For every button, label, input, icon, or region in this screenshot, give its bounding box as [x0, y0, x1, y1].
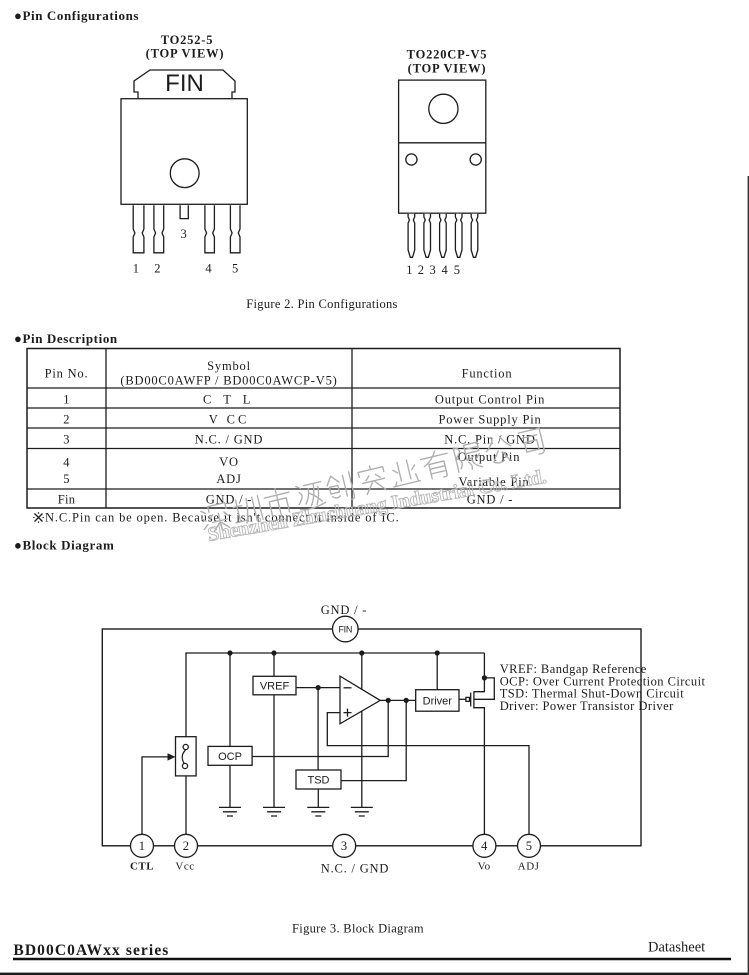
pin FIN tab circle: [333, 616, 359, 642]
svg-text:1: 1: [139, 839, 146, 853]
svg-text:FIN: FIN: [165, 70, 204, 97]
svg-text:●Pin Description: ●Pin Description: [14, 331, 118, 346]
wire TSD output to output node: [341, 700, 406, 780]
junction output node at OCP feedback: [386, 698, 391, 703]
pin 4 Vo: [473, 834, 496, 872]
svg-text:5: 5: [63, 472, 70, 486]
svg-text:V CC: V CC: [209, 413, 250, 427]
ground under op-amp line: [351, 807, 373, 816]
TO252-5 leg 1: [133, 205, 144, 253]
TO252-5 leg 5: [230, 205, 240, 253]
TO252-5 leg 4: [205, 205, 215, 253]
svg-text:Figure 3. Block Diagram: Figure 3. Block Diagram: [292, 922, 424, 936]
TO252-5 leg 2: [154, 205, 164, 253]
TO220 leg 5: [471, 214, 478, 257]
svg-text:ADJ: ADJ: [216, 472, 241, 486]
svg-text:C T L: C T L: [203, 393, 255, 407]
svg-text:(BD00C0AWFP / BD00C0AWCP-V5): (BD00C0AWFP / BD00C0AWCP-V5): [120, 374, 337, 388]
wire VREF output to op-amp inverting input: [296, 687, 340, 689]
svg-text:N.C. Pin / GND: N.C. Pin / GND: [444, 433, 535, 447]
svg-text:N.C. / GND: N.C. / GND: [195, 433, 263, 447]
svg-text:TO220CP-V5: TO220CP-V5: [407, 48, 488, 62]
svg-text:2: 2: [183, 839, 190, 853]
junction on bus at VREF branch: [271, 650, 276, 655]
TO220 mounting hole: [429, 94, 458, 123]
svg-text:5: 5: [232, 262, 239, 276]
svg-text:1: 1: [406, 263, 413, 277]
TO220 leg 1: [408, 214, 415, 257]
wire Driver branch: [436, 653, 438, 690]
TO252-5 body: [121, 99, 247, 205]
package TO220CP-V5 top view: [399, 48, 488, 278]
svg-text:Pin No.: Pin No.: [45, 367, 89, 381]
ground under TSD: [307, 807, 329, 816]
svg-text:VREF: VREF: [260, 681, 290, 693]
svg-text:5: 5: [454, 263, 461, 277]
svg-text:2: 2: [418, 263, 425, 277]
switch S1 (CTL control): [176, 737, 197, 776]
pin 5 ADJ: [518, 834, 541, 872]
package TO252-5 top view: [121, 33, 247, 276]
svg-text:3: 3: [181, 227, 188, 241]
svg-text:BD00C0AWxx series: BD00C0AWxx series: [13, 942, 169, 959]
TSD block: [296, 770, 341, 789]
svg-text:4: 4: [63, 456, 70, 470]
svg-text:4: 4: [442, 263, 449, 277]
ground under OCP: [219, 807, 241, 816]
junction output node at TSD feedback: [404, 698, 409, 703]
svg-text:Datasheet: Datasheet: [648, 940, 705, 956]
svg-text:●Block Diagram: ●Block Diagram: [14, 538, 114, 553]
OCP block: [208, 746, 252, 765]
svg-text:2: 2: [63, 413, 70, 427]
Driver block: [416, 690, 459, 712]
svg-text:1: 1: [63, 393, 70, 407]
svg-text:●Pin Configurations: ●Pin Configurations: [14, 8, 139, 23]
svg-text:VO: VO: [219, 455, 239, 469]
TO220 small hole right: [470, 154, 481, 165]
junction on bus at op-amp branch: [359, 650, 364, 655]
TO220 body divider: [399, 142, 486, 144]
svg-text:OCP: OCP: [218, 751, 242, 763]
junction on bus at Driver branch: [435, 650, 440, 655]
svg-text:Vo: Vo: [478, 861, 491, 873]
svg-text:CTL: CTL: [130, 861, 154, 873]
VREF block: [253, 676, 296, 695]
wire OCP to ground: [229, 765, 231, 807]
svg-text:Function: Function: [462, 367, 513, 381]
TO220 leg 4: [455, 214, 462, 257]
transistor Q1 power PMOS: [459, 678, 494, 834]
svg-text:TO252-5: TO252-5: [161, 33, 214, 47]
wire VREF node to TSD: [317, 688, 319, 770]
wire VREF branch to ground: [273, 653, 275, 807]
svg-text:FIN: FIN: [338, 624, 352, 634]
svg-text:TSD: TSD: [308, 775, 330, 787]
wire op-amp branch to ground: [361, 653, 363, 807]
pin 2 Vcc: [175, 834, 198, 872]
TO252-5 leg 3 center stub: [180, 205, 188, 218]
pin 1 CTL: [130, 834, 154, 872]
svg-text:1: 1: [133, 262, 140, 276]
pin 3 N.C./GND: [321, 834, 389, 875]
ground under VREF line: [263, 807, 285, 816]
svg-text:4: 4: [205, 262, 212, 276]
svg-text:N.C. / GND: N.C. / GND: [321, 862, 389, 876]
TO252-5 tab (FIN): [134, 70, 235, 99]
wire op-amp noninverting input to ADJ pin 5: [327, 713, 529, 835]
wire CTL pin 1 to switch arrow: [142, 757, 171, 834]
svg-text:Output Pin: Output Pin: [458, 450, 521, 464]
TO220 body: [399, 80, 486, 213]
IC boundary box: [102, 629, 641, 846]
wire OCP output to output node: [252, 700, 388, 756]
wire Vcc bus: [186, 653, 484, 846]
TO220 leg 2: [424, 214, 431, 257]
svg-text:Figure 2. Pin Configurations: Figure 2. Pin Configurations: [246, 297, 397, 311]
svg-text:GND / -: GND / -: [206, 493, 253, 507]
wire op-amp output to Driver: [380, 699, 416, 701]
svg-text:2: 2: [154, 262, 161, 276]
svg-text:GND / -: GND / -: [321, 603, 368, 617]
svg-text:(TOP VIEW): (TOP VIEW): [408, 62, 487, 76]
svg-text:Power Supply Pin: Power Supply Pin: [438, 413, 541, 427]
arrowhead into switch: [168, 753, 176, 760]
svg-text:4: 4: [481, 839, 488, 853]
op-amp U1: [340, 676, 380, 724]
junction VREF output node: [316, 685, 321, 690]
svg-text:ADJ: ADJ: [518, 861, 540, 873]
junction on bus at OCP branch: [227, 650, 232, 655]
svg-text:5: 5: [526, 839, 533, 853]
wire OCP branch upper: [229, 653, 231, 746]
svg-text:Output Control Pin: Output Control Pin: [435, 393, 545, 407]
svg-text:Symbol: Symbol: [207, 359, 251, 373]
svg-text:Fin: Fin: [58, 493, 76, 507]
svg-text:Driver: Power Transistor Drive: Driver: Power Transistor Driver: [500, 699, 674, 713]
watermark: [199, 425, 545, 535]
svg-text:3: 3: [430, 263, 437, 277]
pin description table: [27, 349, 620, 525]
wire TSD to ground: [317, 789, 319, 807]
svg-text:Vcc: Vcc: [175, 861, 194, 873]
svg-text:3: 3: [341, 839, 348, 853]
svg-text:3: 3: [63, 433, 70, 447]
svg-text:(TOP VIEW): (TOP VIEW): [146, 47, 225, 61]
TO252-5 body circle: [170, 159, 199, 188]
junction MOSFET drain node: [482, 675, 487, 680]
legend text block: [500, 662, 706, 713]
node GND / - label: [321, 603, 368, 617]
TO220 leg 3: [440, 214, 447, 257]
svg-text:Driver: Driver: [423, 696, 453, 708]
TO220 small hole left: [406, 154, 417, 165]
wire bus to MOSFET drain: [483, 653, 485, 678]
